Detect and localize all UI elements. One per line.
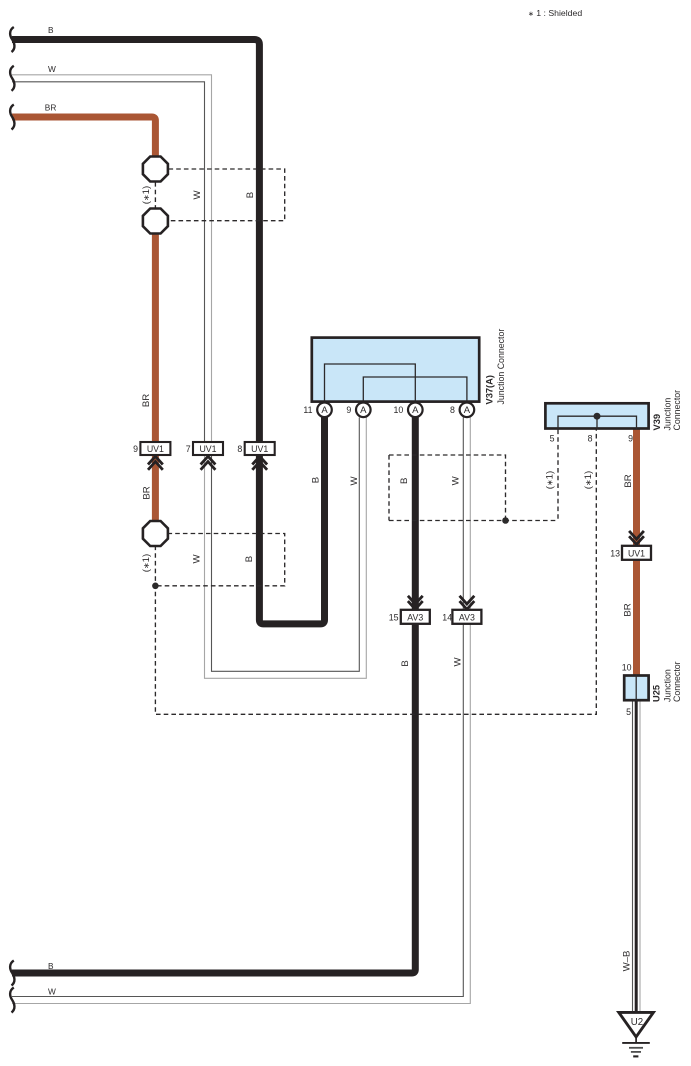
junction connector V37(A) body bbox=[312, 338, 479, 402]
svg-text:Connector: Connector bbox=[672, 390, 682, 431]
ground triangle U2 bbox=[619, 1012, 654, 1037]
svg-text:U2: U2 bbox=[631, 1017, 643, 1028]
svg-text:9: 9 bbox=[133, 444, 138, 454]
connector AV3 pin 15 bbox=[389, 610, 430, 624]
connector UV1 pin 13 bbox=[610, 546, 651, 560]
svg-text:BR: BR bbox=[141, 486, 152, 499]
svg-text:B: B bbox=[245, 192, 256, 198]
chevron under UV1 pin 8 bbox=[252, 456, 267, 470]
svg-text:B: B bbox=[400, 660, 411, 666]
svg-text:B: B bbox=[399, 478, 410, 484]
wire break squiggle BR bbox=[10, 105, 14, 130]
svg-text:Junction Connector: Junction Connector bbox=[496, 329, 506, 405]
chevron above UV1 pin 13 bbox=[629, 531, 644, 545]
svg-text:UV1: UV1 bbox=[199, 444, 216, 454]
junction dot on shield dashed at lower octagon bbox=[152, 583, 159, 590]
junction connector U25 body bbox=[624, 675, 648, 702]
V37(A) internal bus 9-8 bbox=[363, 377, 467, 402]
connector UV1 pin 9 bbox=[133, 442, 170, 455]
wire B from V37(A) pin 10 down through AV3(15) to bottom-left break bbox=[12, 418, 415, 974]
svg-text:BR: BR bbox=[141, 394, 152, 407]
chevron above AV3 pin 14 bbox=[460, 596, 475, 610]
svg-text:AV3: AV3 bbox=[407, 613, 423, 623]
shield octagon lower bbox=[143, 521, 168, 546]
svg-text:W: W bbox=[451, 475, 462, 485]
svg-text:5: 5 bbox=[550, 434, 555, 444]
wire W-B: from U25 pin 5 down to ground triangle U2 bbox=[633, 702, 641, 1012]
ground symbol bbox=[622, 1037, 650, 1057]
svg-text:W–B: W–B bbox=[621, 951, 632, 972]
svg-text:(∗1): (∗1) bbox=[545, 471, 556, 489]
V39 bus junction dot bbox=[594, 413, 601, 420]
V37(A) pin 10 terminal A bbox=[408, 403, 423, 418]
junction connector V39 body bbox=[545, 403, 648, 429]
svg-text:W: W bbox=[349, 476, 360, 486]
wire B top: from left break, right then down to UV1 pin 8, then U-turn up to V37(A) pin 11 bbox=[12, 40, 325, 624]
wire BR left: from left break, down at x155.4 through shield octagons to UV1 pin 9 bbox=[12, 117, 155, 534]
svg-text:11: 11 bbox=[303, 405, 312, 415]
svg-text:10: 10 bbox=[394, 405, 404, 415]
svg-text:B: B bbox=[48, 961, 54, 971]
shield octagon upper 1 bbox=[143, 157, 168, 182]
svg-text:UV1: UV1 bbox=[147, 444, 164, 454]
svg-text:BR: BR bbox=[45, 102, 57, 112]
connector UV1 pin 8 bbox=[237, 442, 274, 455]
svg-text:A: A bbox=[360, 405, 367, 416]
chevron under UV1 pin 9 bbox=[148, 456, 163, 470]
V39 internal bus 5-8-9 bbox=[558, 416, 637, 429]
svg-text:W: W bbox=[191, 554, 202, 564]
dashed shield box right (around B and W wires below V37(A)) bbox=[389, 455, 558, 521]
svg-text:(∗1): (∗1) bbox=[141, 554, 152, 572]
svg-text:9: 9 bbox=[628, 434, 633, 444]
connector AV3 pin 14 bbox=[442, 610, 481, 624]
wire break squiggle W top bbox=[10, 66, 14, 91]
dashed shield box lower (around W and B wires) bbox=[155, 534, 284, 586]
U25 internal bus 10-5 bbox=[635, 675, 637, 702]
shield octagon upper 2 bbox=[143, 209, 168, 234]
svg-text:V39: V39 bbox=[652, 414, 662, 431]
dashed from V39 pin 5 bbox=[557, 430, 559, 521]
svg-text:AV3: AV3 bbox=[459, 613, 475, 623]
svg-text:A: A bbox=[464, 405, 471, 416]
svg-text:14: 14 bbox=[442, 613, 452, 623]
svg-text:13: 13 bbox=[610, 549, 620, 559]
chevron above AV3 pin 15 bbox=[408, 596, 423, 610]
svg-text:15: 15 bbox=[389, 613, 399, 623]
svg-text:V37(A): V37(A) bbox=[485, 375, 495, 404]
svg-text:∗ 1 : Shielded: ∗ 1 : Shielded bbox=[528, 8, 582, 18]
svg-text:W: W bbox=[48, 986, 56, 996]
svg-text:W: W bbox=[452, 657, 463, 667]
svg-text:B: B bbox=[244, 556, 255, 562]
wire W top: double line from left break, down at x208 to UV1 pin 7, then U to V37(A) pin 9 bbox=[12, 75, 366, 679]
svg-text:(∗1): (∗1) bbox=[583, 471, 594, 489]
wire break squiggle W bottom bbox=[10, 988, 14, 1013]
dashed link between shield octagons bbox=[154, 182, 156, 209]
svg-text:B: B bbox=[311, 477, 322, 483]
V37(A) pin 8 terminal A bbox=[460, 403, 475, 418]
V37(A) pin 9 terminal A bbox=[356, 403, 371, 418]
svg-text:W: W bbox=[192, 190, 203, 200]
svg-text:UV1: UV1 bbox=[251, 444, 268, 454]
svg-text:8: 8 bbox=[237, 444, 242, 454]
svg-text:Junction: Junction bbox=[663, 669, 673, 702]
dashed shield box top (around W and B wires) bbox=[155, 169, 596, 714]
svg-text:UV1: UV1 bbox=[628, 549, 645, 559]
V37(A) pin 11 terminal A bbox=[317, 403, 332, 418]
svg-text:8: 8 bbox=[588, 434, 593, 444]
wire break squiggle B bottom bbox=[10, 961, 14, 986]
dashed shield drain: octagon to node, down and right up to V39 pin 8 bbox=[155, 430, 596, 715]
svg-text:(∗1): (∗1) bbox=[141, 186, 152, 204]
svg-text:10: 10 bbox=[622, 662, 632, 672]
chevron under UV1 pin 7 bbox=[201, 456, 216, 470]
note: *1 Shielded bbox=[528, 8, 582, 18]
wire W from V37(A) pin 8 down through AV3(14) to bottom-left break bbox=[12, 418, 470, 1004]
svg-text:Junction: Junction bbox=[663, 398, 673, 431]
svg-text:9: 9 bbox=[346, 405, 351, 415]
svg-text:W: W bbox=[48, 64, 56, 74]
svg-text:U25: U25 bbox=[652, 685, 662, 702]
svg-text:B: B bbox=[48, 25, 54, 35]
svg-text:5: 5 bbox=[626, 707, 631, 717]
junction dot on shield dashed below dashed box bbox=[502, 517, 509, 524]
svg-text:8: 8 bbox=[450, 405, 455, 415]
V37(A) internal bus 11-10 bbox=[325, 364, 416, 402]
svg-text:A: A bbox=[412, 405, 419, 416]
connector UV1 pin 7 bbox=[186, 442, 223, 455]
svg-text:Connector: Connector bbox=[672, 661, 682, 702]
wire break squiggle B top bbox=[10, 27, 14, 52]
svg-text:7: 7 bbox=[186, 444, 191, 454]
svg-text:BR: BR bbox=[622, 603, 633, 616]
wire BR right: from V39 pin 9 down through UV1(13) to U25 pin 10 bbox=[633, 429, 640, 676]
svg-text:A: A bbox=[321, 405, 328, 416]
svg-text:BR: BR bbox=[623, 474, 634, 487]
